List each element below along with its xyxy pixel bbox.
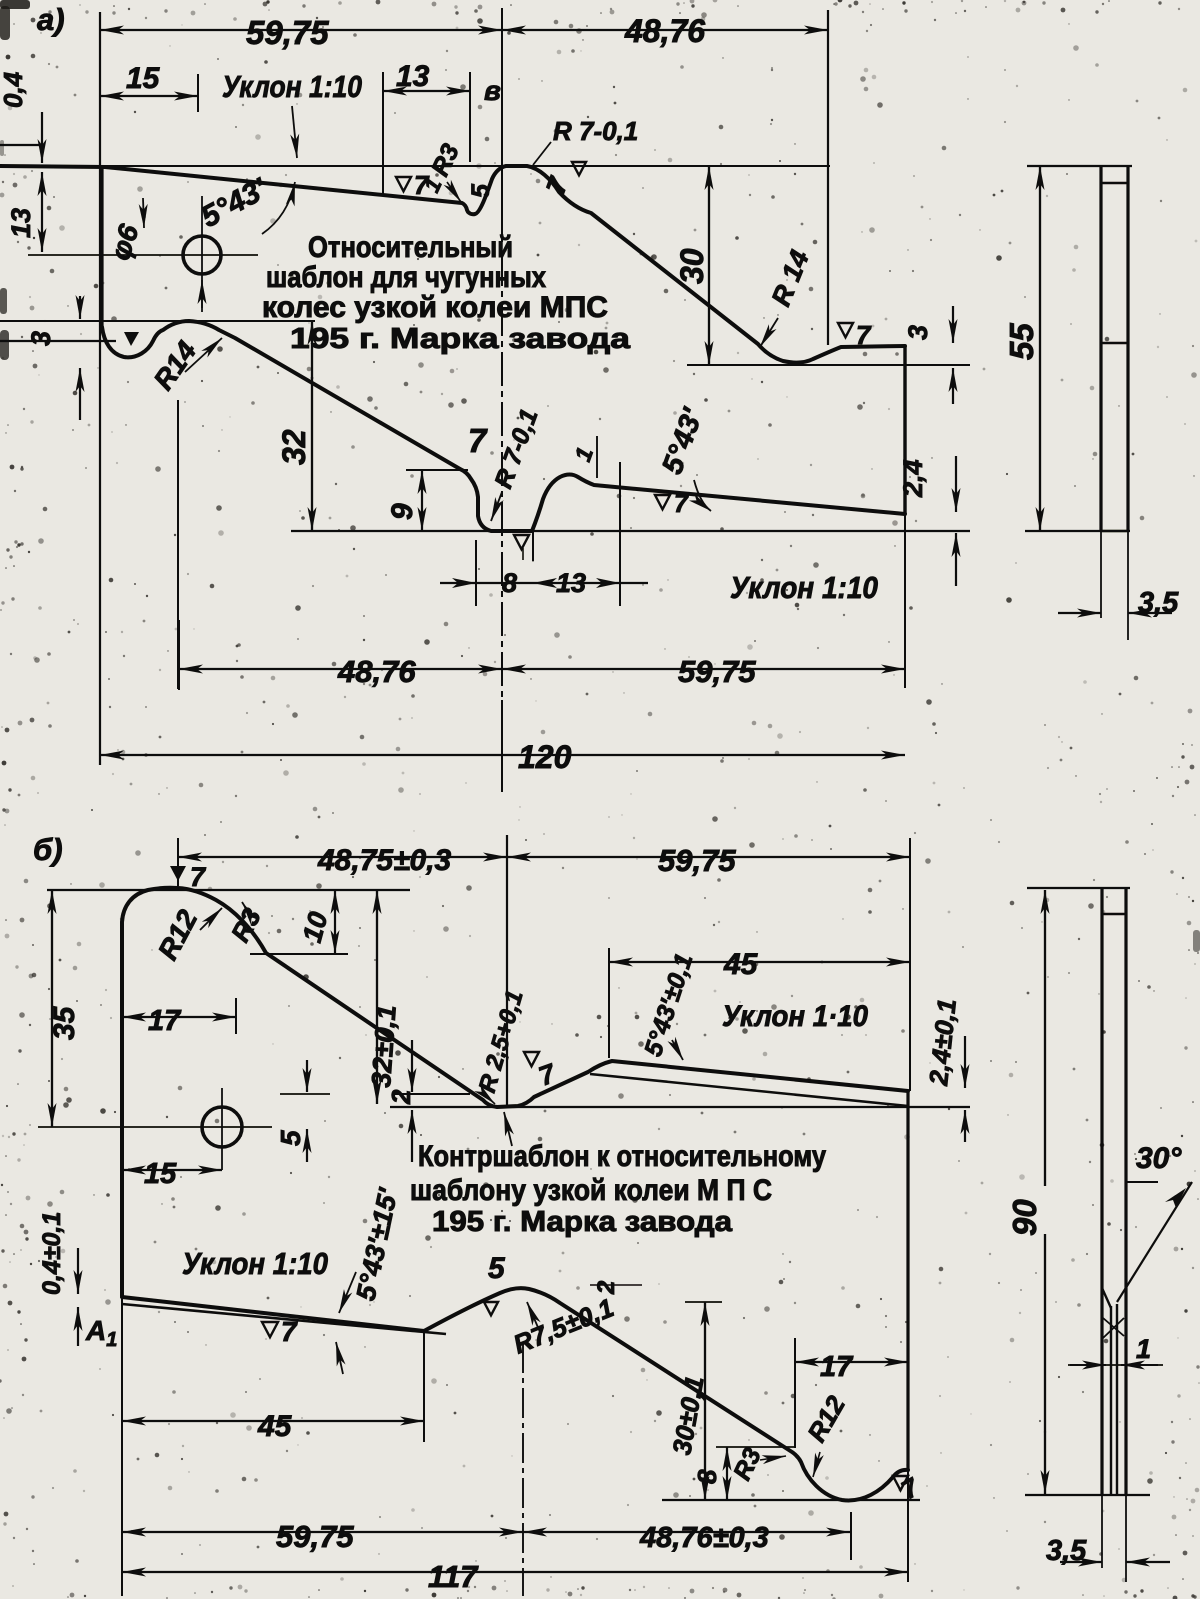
dim 5 hole offset <box>280 1093 330 1095</box>
svg-text:Уклон 1:10: Уклон 1:10 <box>730 570 878 605</box>
dimension 59,75 b <box>507 856 910 858</box>
leader R7,5 <box>527 1302 540 1332</box>
svg-text:13: 13 <box>396 60 430 93</box>
left dim 0,4 <box>0 144 45 146</box>
leader arrow lower R7 <box>491 492 502 521</box>
svg-text:Относительный: Относительный <box>308 231 513 264</box>
svg-text:195 г. Марка завода: 195 г. Марка завода <box>290 323 631 355</box>
svg-text:48,76±0,3: 48,76±0,3 <box>639 1522 769 1554</box>
side bar A extensions <box>1100 531 1102 618</box>
svg-text:б): б) <box>33 832 63 867</box>
roughness mark on hook left <box>124 332 139 346</box>
svg-text:2,4: 2,4 <box>898 459 928 498</box>
svg-text:5: 5 <box>488 1252 506 1285</box>
svg-text:3,5: 3,5 <box>1046 1535 1087 1567</box>
side bar B left edge <box>1100 888 1103 1495</box>
dimension 59,75 bottom <box>502 668 905 670</box>
svg-text:55: 55 <box>1003 323 1040 360</box>
svg-text:45: 45 <box>257 1410 293 1443</box>
dim 35 <box>51 890 53 1127</box>
extension x424 <box>423 1331 425 1442</box>
dim 10 <box>250 953 348 955</box>
leader from Uklon label to tread <box>292 106 297 158</box>
dim 1 tick <box>1068 1364 1163 1366</box>
svg-text:Уклон 1:10: Уклон 1:10 <box>182 1246 328 1281</box>
hole φ6 fig a <box>183 236 221 274</box>
chamfer left line <box>1102 1288 1111 1308</box>
arrow on diagonal <box>1165 1188 1186 1208</box>
side view A top tick <box>1027 165 1132 167</box>
svg-text:120: 120 <box>518 739 572 775</box>
center axis fig a x502 <box>501 8 503 242</box>
svg-text:195 г. Марка завода: 195 г. Марка завода <box>432 1206 733 1238</box>
svg-text:0,4: 0,4 <box>0 71 28 108</box>
lower profile b tread lines <box>122 1288 908 1500</box>
hole centerline horizontal <box>28 254 258 256</box>
extension x908 lower <box>907 1470 909 1582</box>
dimension 9 <box>406 469 468 471</box>
side bar A bottom <box>1101 530 1128 532</box>
cross marks <box>1103 1318 1124 1336</box>
bottom tick y1495 <box>1025 1494 1150 1496</box>
dim 45 b lower <box>122 1420 424 1422</box>
svg-text:7: 7 <box>190 862 207 892</box>
axis x523 lower <box>522 1343 524 1596</box>
svg-text:Уклон 1:10: Уклон 1:10 <box>222 69 362 104</box>
svg-text:7: 7 <box>414 170 430 200</box>
svg-text:13: 13 <box>556 568 586 598</box>
dim 3,5 A <box>1058 612 1101 614</box>
svg-text:30°: 30° <box>1136 1142 1182 1175</box>
svg-text:2: 2 <box>386 1089 416 1105</box>
leader 5°43 top <box>262 182 295 234</box>
svg-text:59,75: 59,75 <box>658 843 736 878</box>
extension x178 b <box>177 838 179 886</box>
base reference y1107 <box>390 1106 970 1108</box>
right edge b <box>906 1091 909 1470</box>
left dim 13 <box>41 172 43 252</box>
side view B top tick <box>1027 887 1130 889</box>
roughness mark ∇7 tread top <box>396 177 411 191</box>
small nabla below groove <box>514 535 529 549</box>
svg-text:15: 15 <box>126 62 161 95</box>
svg-text:32±0,1: 32±0,1 <box>366 1004 402 1088</box>
svg-text:9: 9 <box>386 503 419 520</box>
top profile of template a <box>0 166 905 363</box>
svg-text:шаблону узкой колеи М П С: шаблону узкой колеи М П С <box>410 1174 772 1207</box>
dimension 55 <box>1039 166 1041 531</box>
svg-text:35: 35 <box>48 1005 81 1040</box>
leader R2,5 <box>484 1094 495 1104</box>
svg-text:Уклон 1·10: Уклон 1·10 <box>722 1000 868 1033</box>
svg-text:3: 3 <box>26 331 56 346</box>
dimension 120 <box>100 754 905 756</box>
nabla 7 lower tread b <box>262 1322 278 1337</box>
extension x122 lower <box>121 1296 123 1596</box>
left dim 3 <box>0 340 116 342</box>
svg-text:Контршаблон к относительному: Контршаблон к относительному <box>418 1140 826 1173</box>
small 2 tick right of hump <box>590 1284 642 1286</box>
dim 2 <box>393 1093 470 1095</box>
dim 15 b <box>122 1169 222 1171</box>
svg-text:45: 45 <box>723 948 759 981</box>
roughness ∇7 v-notch <box>524 1052 539 1066</box>
dim 30±0,1 <box>685 1301 722 1303</box>
svg-text:8: 8 <box>692 1469 722 1484</box>
dim 32±0,1 <box>376 890 378 1104</box>
tread second line b <box>590 1074 908 1106</box>
svg-text:30: 30 <box>674 248 710 284</box>
svg-text:R 7-0,1: R 7-0,1 <box>553 116 638 146</box>
dim 45 b top <box>609 961 910 963</box>
svg-text:8: 8 <box>502 568 517 598</box>
dimension 48,75±0,3 <box>178 856 507 858</box>
svg-text:13: 13 <box>6 208 36 238</box>
leader 5°43±15 <box>339 1272 356 1313</box>
leader φ6 <box>143 198 144 228</box>
extension x910 b <box>909 838 911 1091</box>
svg-text:48,76: 48,76 <box>337 654 416 689</box>
dim 8 b <box>716 1446 795 1448</box>
svg-text:колес узкой колеи МПС: колес узкой колеи МПС <box>262 291 608 324</box>
svg-text:48,75±0,3: 48,75±0,3 <box>317 844 452 877</box>
tread second line lower b <box>122 1304 446 1334</box>
hole b centerlines <box>38 1126 272 1128</box>
side bar B extensions <box>1101 1495 1103 1568</box>
hole b <box>202 1107 242 1147</box>
nabla 7 lower tread <box>655 495 670 509</box>
dim 8 lower <box>440 582 648 584</box>
dim 2,4±0,1 b <box>964 1036 966 1088</box>
dimension 48,76 bottom <box>179 668 502 670</box>
side bar A cap line <box>1101 182 1128 184</box>
svg-text:90: 90 <box>1006 1199 1043 1236</box>
dimension 90 <box>1044 890 1046 1186</box>
svg-text:117: 117 <box>428 1559 479 1594</box>
dim 13 lower <box>596 578 620 588</box>
svg-text:17: 17 <box>820 1351 854 1383</box>
dim 17 b lower <box>795 1361 908 1363</box>
leader 5°43 lower <box>694 480 711 511</box>
svg-text:0,4±0,1: 0,4±0,1 <box>38 1212 66 1295</box>
svg-text:7: 7 <box>281 1316 298 1347</box>
svg-text:3: 3 <box>903 325 933 340</box>
svg-text:32: 32 <box>276 429 312 465</box>
roughness ∇7 on back line <box>838 323 853 337</box>
svg-text:48,76: 48,76 <box>624 13 705 49</box>
dim 2,4 <box>955 456 957 512</box>
dimension 15 <box>100 95 198 97</box>
vertical x179 <box>178 620 180 690</box>
base tick y1500 <box>662 1499 920 1501</box>
svg-text:шаблон для чугунных: шаблон для чугунных <box>266 261 546 294</box>
svg-text:а): а) <box>37 2 65 37</box>
extension line x828 <box>827 10 829 345</box>
roughness ∇7 peak b <box>170 866 186 881</box>
dim 0,4±0,1 <box>77 1248 79 1294</box>
svg-text:5: 5 <box>467 183 495 198</box>
dim 48,76±0,3 <box>523 1531 850 1533</box>
left edge of template a <box>100 168 103 327</box>
svg-text:3,5: 3,5 <box>1138 587 1179 619</box>
dim 1 arrows <box>1070 1364 1106 1366</box>
bottom tick y531 <box>1025 530 1130 532</box>
svg-text:7: 7 <box>856 320 872 350</box>
right edge of template a <box>903 346 906 514</box>
extension below right edge <box>904 514 906 688</box>
svg-text:7: 7 <box>674 490 689 518</box>
tick 1 near hump <box>596 436 598 478</box>
center axis b x507 <box>506 835 508 1108</box>
roughness mark 7 flange <box>572 162 586 175</box>
extension x178 down <box>177 400 179 689</box>
reference line y166 <box>105 165 830 167</box>
svg-text:в: в <box>484 75 501 106</box>
leader arrow to v bottom <box>504 1112 512 1146</box>
extension x476 and x620 <box>475 540 477 606</box>
leader 5°43 b <box>672 1040 683 1060</box>
svg-text:2: 2 <box>593 1280 620 1295</box>
dim 117 <box>122 1571 908 1573</box>
chamfer diagonal 30° <box>1117 1182 1192 1302</box>
svg-text:7: 7 <box>468 422 488 459</box>
svg-text:59,75: 59,75 <box>276 1519 354 1554</box>
side bar B right edge <box>1124 888 1127 1495</box>
dimension 30 <box>708 166 710 365</box>
hole centerline vertical <box>201 196 203 308</box>
svg-text:15: 15 <box>144 1158 177 1190</box>
reference line y890 <box>47 889 410 891</box>
dim 59,75 b lower <box>122 1531 523 1533</box>
side bar A left edge <box>1099 166 1102 531</box>
dimension 13 top <box>383 90 470 92</box>
reference line y321 <box>0 320 315 322</box>
leader arrow tread b <box>336 1342 343 1374</box>
reference line y365 right <box>687 364 970 366</box>
svg-text:1: 1 <box>1136 1334 1151 1364</box>
dim 3,5 B <box>1060 1561 1102 1563</box>
svg-text:59,75: 59,75 <box>678 654 756 689</box>
arrow below hole <box>201 280 203 312</box>
side bar B cap line <box>1102 913 1126 915</box>
svg-text:5: 5 <box>275 1130 306 1146</box>
extension line left x100 <box>99 12 101 765</box>
side bar A right edge <box>1126 166 1129 531</box>
dimension 32 <box>311 321 313 531</box>
dim 17 b <box>122 1016 236 1018</box>
tick 0,4 end <box>0 144 45 146</box>
nabla hump left <box>484 1302 498 1315</box>
svg-text:59,75: 59,75 <box>246 14 329 51</box>
base reference line y531 <box>291 530 970 532</box>
dim 3 right <box>952 306 954 343</box>
svg-text:17: 17 <box>148 1005 182 1037</box>
side bar A joint line <box>1101 342 1128 344</box>
nabla 7 hook b <box>893 1476 908 1490</box>
dimension 48,76 top <box>502 29 828 31</box>
profile b upper outline <box>122 888 908 1296</box>
inner tip lines <box>1110 1306 1112 1495</box>
tick at 30° vertex <box>1126 1181 1158 1183</box>
dimension 59,75 top <box>100 29 502 31</box>
